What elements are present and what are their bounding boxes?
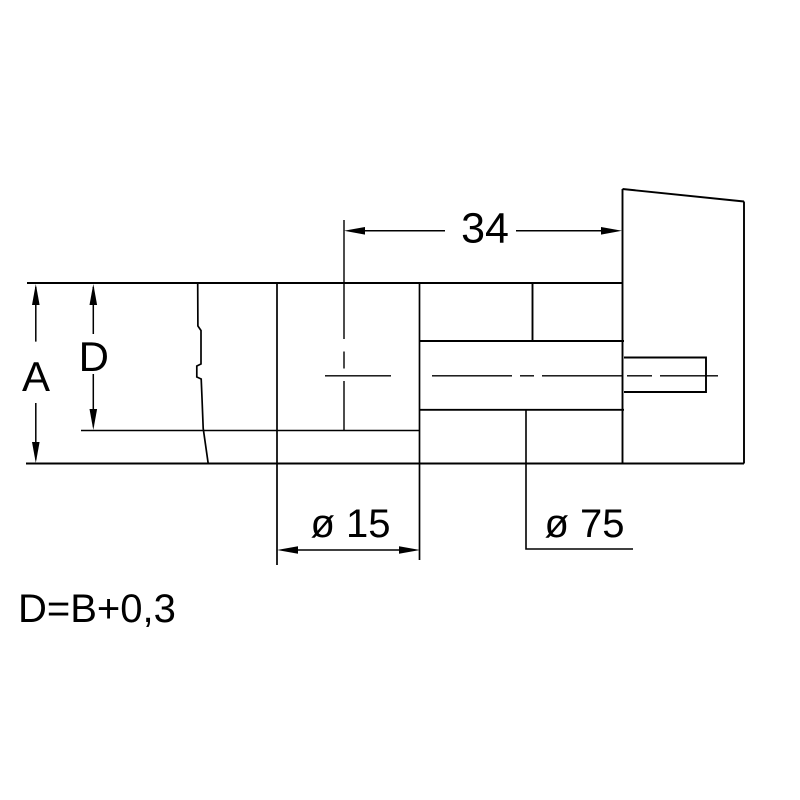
vertical step edge x=526 with ø75 leader <box>526 410 633 549</box>
svg-text:D=B+0,3: D=B+0,3 <box>18 587 176 631</box>
svg-text:34: 34 <box>461 205 509 253</box>
vertical part edge x=419.5 with ø15 extension <box>419 283 421 560</box>
small shaft stub rectangle <box>624 358 706 393</box>
arrowhead ø15 left <box>277 546 298 554</box>
arrowhead A bottom <box>32 442 40 463</box>
dimension line A <box>35 287 37 460</box>
arrowhead ø15 right <box>399 546 420 554</box>
main top edge line <box>27 282 623 284</box>
horizontal centerline dash-dot <box>325 375 718 377</box>
lower step edge y=409.8 <box>420 409 625 411</box>
arrowhead D bottom <box>90 409 98 430</box>
arrowhead A top <box>32 284 40 305</box>
flange slanted top edge <box>623 189 745 202</box>
svg-text:A: A <box>22 353 50 400</box>
dimension line ø15 <box>297 549 400 551</box>
dimension line D <box>92 287 94 427</box>
vertical step edge x=532.5 <box>532 283 534 341</box>
bore edge / D reference line y=430.5 <box>81 430 420 432</box>
arrowhead 34 right <box>601 227 622 235</box>
svg-text:ø 15: ø 15 <box>310 502 390 546</box>
svg-text:D: D <box>79 333 109 380</box>
vertical part edge x=277 with ø15 extension <box>276 283 278 565</box>
arrowhead 34 left <box>344 227 365 235</box>
dimension line 34 <box>365 230 601 232</box>
flange right edge x=744 <box>743 202 745 464</box>
vertical centerline / 34-dim extension at x=344 <box>343 220 345 431</box>
arrowhead D top <box>90 284 98 305</box>
flange left edge x=622.5 <box>622 189 624 464</box>
svg-text:ø 75: ø 75 <box>544 502 624 546</box>
freehand break line <box>197 283 208 464</box>
upper step edge y=341 <box>420 340 625 342</box>
bottom edge line y=463.5 <box>26 463 744 465</box>
